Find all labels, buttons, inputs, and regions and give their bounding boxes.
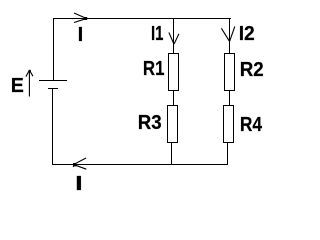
svg-text:E: E — [11, 75, 24, 97]
resistor R4 — [224, 106, 234, 143]
resistor R2 — [225, 54, 235, 91]
resistor R3 — [168, 106, 178, 143]
svg-text:I: I — [75, 172, 83, 195]
battery E long plate (row 80, cols 39-66) — [39, 80, 67, 81]
wire branch 1 middle (col 173, rows 91-104) — [173, 91, 174, 105]
arrow EMF E (up arrow left of battery) — [26, 70, 33, 97]
wire branch 2 lower (col 227, rows 143-163) — [227, 143, 228, 164]
svg-text:I1: I1 — [151, 22, 163, 45]
arrow current I top (right-pointing on top wire) — [74, 13, 87, 23]
wire branch 2 upper (col 229, rows 19-52) — [229, 19, 230, 53]
battery E short plate (row 88, cols 48-57) — [48, 88, 58, 89]
svg-text:R4: R4 — [240, 114, 263, 137]
arrow current I2 (down chevron on branch 2) — [221, 26, 234, 41]
wire left lower (col 52, rows 89-163) — [52, 89, 53, 164]
wire top (row 18, cols 53-230) — [53, 18, 231, 19]
arrow current I bottom (left-pointing on bottom wire) — [73, 158, 86, 169]
wire branch 1 lower (col 171, rows 143-163) — [171, 143, 172, 164]
svg-text:R1: R1 — [143, 57, 165, 80]
resistor R1 — [169, 54, 179, 91]
wire branch 2 middle (col 229, rows 91-104) — [229, 91, 230, 105]
svg-text:I: I — [78, 24, 84, 46]
wire branch 1 upper (col 173, rows 19-52) — [173, 19, 174, 53]
arrow current I1 (down chevron on branch 1) — [169, 33, 179, 45]
wire left upper (col 53, rows 19-79) — [53, 19, 54, 80]
svg-text:I2: I2 — [239, 23, 255, 46]
svg-text:R3: R3 — [138, 111, 162, 134]
svg-text:R2: R2 — [240, 58, 264, 81]
wire bottom (row 164, cols 52-227) — [52, 164, 228, 165]
